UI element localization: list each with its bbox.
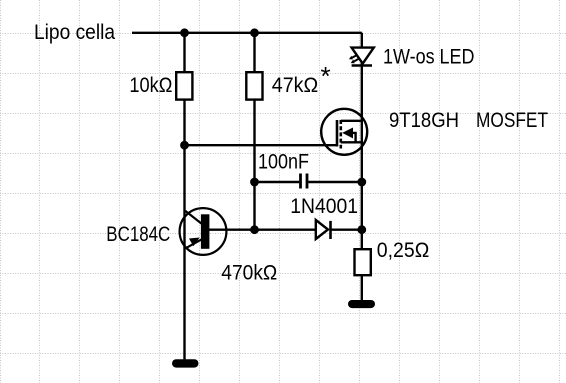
LED D1 1W bbox=[349, 48, 374, 66]
junction dot top rail at 47k bbox=[250, 28, 259, 37]
wire 47k bottom down to base junction bbox=[253, 100, 255, 230]
wire from 0.25 ohm resistor to ground bbox=[361, 275, 363, 300]
svg-text:47kΩ: 47kΩ bbox=[272, 74, 318, 97]
resistor 47kohm body bbox=[246, 72, 262, 99]
wire 47k branch top bbox=[253, 33, 255, 72]
junction dot cap right bbox=[357, 178, 366, 187]
svg-text:*: * bbox=[321, 61, 331, 91]
junction dot top rail at 10k bbox=[180, 28, 189, 37]
wire diode cathode to main vertical bbox=[331, 228, 362, 230]
svg-text:470kΩ: 470kΩ bbox=[221, 262, 277, 285]
svg-text:MOSFET: MOSFET bbox=[476, 109, 548, 132]
wire top rail from Lipo cella to LED corner bbox=[132, 32, 362, 34]
ground left bbox=[172, 359, 199, 367]
svg-text:BC184C: BC184C bbox=[106, 223, 170, 246]
svg-text:1N4001: 1N4001 bbox=[290, 195, 358, 218]
junction dot gate node bbox=[180, 141, 189, 150]
capacitor 100nF plates bbox=[301, 174, 308, 189]
wire base to diode anode bbox=[209, 228, 316, 230]
svg-text:1W-os LED: 1W-os LED bbox=[383, 46, 475, 69]
wire main right vertical (LED/MOSFET/cap/diode branch) bbox=[361, 33, 363, 249]
junction dot diode cathode node bbox=[357, 225, 366, 234]
svg-text:0,25Ω: 0,25Ω bbox=[377, 239, 430, 262]
wire capacitor right bbox=[308, 181, 362, 183]
wire capacitor left bbox=[255, 181, 300, 183]
MOSFET 9T18GH symbol bbox=[321, 109, 367, 155]
ground right bbox=[348, 300, 375, 308]
svg-text:9T18GH: 9T18GH bbox=[389, 109, 459, 132]
resistor 0,25ohm body bbox=[355, 249, 371, 275]
svg-text:Lipo cella: Lipo cella bbox=[34, 21, 115, 44]
svg-text:10kΩ: 10kΩ bbox=[129, 74, 172, 97]
svg-text:100nF: 100nF bbox=[258, 151, 309, 174]
wire 10k branch top bbox=[183, 33, 185, 72]
resistor 10kohm body bbox=[176, 72, 192, 99]
transistor BC184C symbol bbox=[180, 208, 227, 255]
junction dot cap left bbox=[250, 178, 259, 187]
wire gate lead bbox=[185, 144, 338, 146]
diode 1N4001 symbol bbox=[316, 220, 331, 239]
junction dot base node bbox=[250, 225, 259, 234]
wire 10k bottom down through transistor to ground bbox=[183, 100, 185, 360]
